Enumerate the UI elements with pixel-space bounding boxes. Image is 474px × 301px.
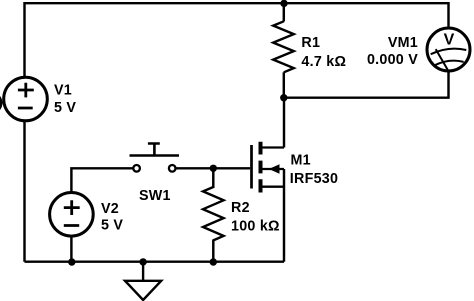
svg-text:4.7 kΩ: 4.7 kΩ (301, 54, 346, 70)
svg-text:100 kΩ: 100 kΩ (231, 219, 280, 235)
svg-text:M1: M1 (291, 152, 311, 168)
svg-text:VM1: VM1 (388, 35, 418, 51)
svg-text:R1: R1 (301, 35, 320, 51)
svg-text:5 V: 5 V (101, 217, 123, 233)
svg-text:V1: V1 (54, 83, 72, 99)
svg-text:SW1: SW1 (139, 188, 171, 204)
svg-text:5 V: 5 V (54, 100, 76, 116)
svg-text:R2: R2 (231, 200, 250, 216)
svg-text:V: V (444, 31, 455, 48)
svg-text:V2: V2 (101, 201, 119, 217)
svg-text:0.000 V: 0.000 V (367, 52, 418, 68)
svg-text:IRF530: IRF530 (290, 171, 338, 187)
